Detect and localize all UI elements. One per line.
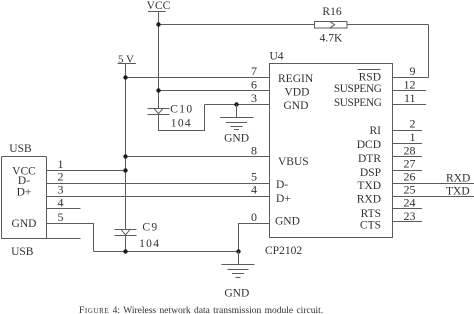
svg-text:7: 7	[251, 64, 257, 78]
svg-text:GND: GND	[275, 216, 300, 228]
svg-text:VDD: VDD	[285, 87, 310, 99]
svg-text:R16: R16	[322, 6, 341, 18]
wire pin 8 VBUS	[126, 156, 270, 158]
ground top (pin 3)	[220, 105, 254, 145]
svg-text:DCD: DCD	[357, 139, 381, 151]
pin 0 number	[251, 210, 257, 224]
svg-text:REGIN: REGIN	[278, 73, 314, 85]
node TXD label	[446, 186, 470, 198]
svg-text:GND: GND	[12, 218, 37, 230]
capacitor C10	[148, 104, 194, 130]
svg-text:SUSPENG: SUSPENG	[334, 83, 382, 95]
node RXD label	[446, 173, 470, 185]
wire pin 3 GND	[205, 104, 270, 106]
wire 5V rail vertical	[125, 64, 127, 230]
junction C9/ground rail	[123, 249, 127, 253]
resistor R16	[315, 6, 348, 44]
wire pin 27 stub	[393, 170, 423, 172]
svg-text:28: 28	[404, 144, 416, 158]
wire pin 23 stub	[393, 221, 423, 223]
wire RSD overline	[358, 69, 381, 71]
wire VCC to R16	[159, 24, 315, 26]
wire pin 26 RXD net	[393, 183, 474, 185]
wire USB pin 5 to ground rail	[47, 224, 94, 252]
IC U4 CP2102 box	[270, 64, 393, 238]
wire USB pin 4 stub	[47, 208, 81, 210]
svg-text:RTS: RTS	[361, 208, 381, 220]
svg-text:4.7K: 4.7K	[320, 32, 343, 44]
svg-text:2: 2	[58, 170, 64, 184]
svg-text:8: 8	[251, 144, 257, 158]
svg-text:GND: GND	[224, 132, 249, 144]
svg-text:DSP: DSP	[360, 167, 381, 179]
junction pin0/ground rail	[236, 249, 240, 253]
svg-text:RSD: RSD	[359, 72, 381, 84]
wire R16 to corner	[347, 24, 429, 26]
IC part number CP2102	[265, 245, 302, 257]
connector USB label top	[9, 143, 32, 155]
svg-text:3: 3	[58, 183, 64, 197]
junction 5V/VBUS	[123, 154, 127, 158]
svg-text:SUSPENG: SUSPENG	[334, 97, 382, 109]
svg-text:GND: GND	[224, 287, 249, 299]
pin 5 number	[58, 210, 64, 224]
wire pin 1 stub	[393, 143, 423, 145]
svg-text:USB: USB	[11, 246, 34, 258]
junction pin3/ground	[234, 102, 238, 106]
svg-text:0: 0	[251, 210, 257, 224]
svg-text:DTR: DTR	[358, 153, 381, 165]
wire pin 6 VDD	[159, 90, 270, 92]
connector USB box	[2, 157, 81, 239]
wire pin 2 stub	[393, 130, 423, 132]
wire D+ net	[47, 196, 270, 198]
svg-text:RXD: RXD	[357, 193, 381, 205]
svg-text:C9: C9	[142, 221, 158, 233]
IC pin numbers right	[404, 64, 416, 223]
wire pin 25 TXD net	[393, 196, 474, 198]
capacitor C9	[115, 221, 161, 250]
svg-text:4: 4	[251, 183, 257, 197]
svg-text:104: 104	[171, 118, 192, 130]
wire C9 bottom to ground rail	[125, 236, 127, 252]
wire ground rail bottom	[94, 251, 239, 253]
wire pin 7 REGIN	[126, 77, 270, 79]
svg-text:TXD: TXD	[446, 186, 470, 198]
svg-text:D-: D-	[18, 175, 30, 187]
svg-text:5: 5	[251, 170, 257, 184]
connector USB label bottom	[11, 246, 34, 258]
op-amp U4 designator	[270, 50, 284, 62]
wire USB pin 1 to 5V rail	[47, 170, 126, 172]
svg-text:26: 26	[404, 170, 416, 184]
wire D- net	[47, 183, 270, 185]
svg-text:6: 6	[251, 78, 257, 92]
wire pin 24 stub	[393, 208, 423, 210]
svg-text:D-: D-	[276, 179, 288, 191]
svg-text:9: 9	[410, 64, 416, 78]
wire C10 bottom return	[159, 105, 205, 131]
svg-text:U4: U4	[270, 50, 284, 62]
IC pin numbers left	[251, 64, 257, 197]
svg-text:11: 11	[404, 91, 416, 105]
junction 5V/USB VCC	[123, 168, 127, 172]
svg-text:27: 27	[404, 157, 416, 171]
wire VCC rail vertical	[158, 12, 160, 109]
svg-text:12: 12	[404, 78, 416, 92]
svg-text:VBUS: VBUS	[278, 156, 309, 168]
svg-text:RI: RI	[370, 125, 382, 137]
node VCC label	[147, 0, 171, 12]
svg-text:5: 5	[58, 210, 64, 224]
IC pin labels left column	[275, 73, 314, 228]
svg-text:CP2102: CP2102	[265, 245, 302, 257]
wire pin 28 stub	[393, 156, 423, 158]
junction VCC/VDD	[156, 88, 160, 92]
wire VCC underline	[148, 11, 166, 13]
node 5V label	[118, 53, 134, 65]
svg-text:RXD: RXD	[446, 173, 470, 185]
junction 5V/REGIN	[123, 75, 127, 79]
wire corner down to pin 9	[428, 25, 430, 78]
svg-text:VCC: VCC	[147, 0, 171, 12]
svg-text:3: 3	[251, 91, 257, 105]
pin 3 number	[58, 183, 64, 197]
pin 1 number	[58, 157, 64, 171]
IC pin labels right column	[334, 72, 382, 232]
svg-text:1: 1	[410, 130, 416, 144]
svg-text:2: 2	[410, 117, 416, 131]
svg-text:4: 4	[58, 196, 64, 210]
svg-text:USB: USB	[9, 143, 32, 155]
svg-text:104: 104	[139, 238, 160, 250]
svg-text:Figure 4: Wireless network dat: Figure 4: Wireless network data transmis…	[79, 306, 323, 314]
junction VCC/R16	[156, 22, 160, 26]
pin 4 number	[58, 196, 64, 210]
svg-text:24: 24	[404, 196, 416, 210]
svg-text:C10: C10	[170, 104, 193, 116]
svg-text:23: 23	[404, 209, 416, 223]
svg-text:GND: GND	[284, 100, 309, 112]
wire pin 11 stub	[393, 104, 427, 106]
svg-text:D+: D+	[17, 187, 32, 199]
svg-text:CTS: CTS	[360, 219, 381, 231]
svg-text:D+: D+	[276, 193, 291, 205]
wire pin 0 GND	[239, 224, 270, 252]
svg-text:25: 25	[404, 183, 416, 197]
svg-text:TXD: TXD	[357, 180, 381, 192]
wire 5V underline	[118, 63, 137, 65]
pin 2 number	[58, 170, 64, 184]
ground bottom	[222, 252, 255, 300]
wire pin 9 stub	[393, 77, 429, 79]
wire pin 12 stub	[393, 90, 427, 92]
